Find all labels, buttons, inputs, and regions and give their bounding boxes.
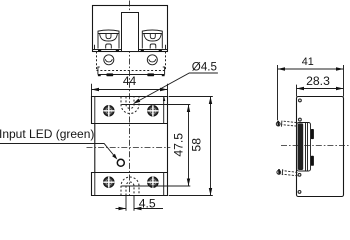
Input LED label and leader	[0, 127, 117, 160]
top view center barrier block	[122, 13, 139, 52]
front view body outline	[92, 97, 168, 196]
front view band inner lines	[95, 97, 164, 196]
side view centerline	[281, 145, 350, 147]
dimension 28.3	[297, 74, 344, 96]
dimension 44	[92, 74, 168, 96]
front screw bottom-right	[147, 177, 158, 188]
LED indicator circle	[117, 159, 124, 166]
top view front edge slot marks	[98, 50, 162, 52]
top view right corner foot	[163, 67, 165, 75]
top view right terminal clamp	[142, 30, 162, 49]
top view left corner foot	[98, 67, 100, 75]
top view front edge line	[93, 49, 168, 51]
dimension 41	[278, 56, 344, 120]
top view foot pads	[98, 73, 165, 76]
front screw bottom-left	[103, 177, 114, 188]
svg-text:58: 58	[190, 138, 204, 152]
dimension 47.5	[122, 105, 191, 187]
svg-text:4.5: 4.5	[139, 196, 156, 210]
top view outer body	[93, 6, 168, 52]
side view body outline	[297, 97, 344, 197]
bottom mounting slot hidden outline	[121, 177, 139, 196]
top view screw access hole right	[147, 55, 157, 65]
svg-text:Input LED (green): Input LED (green)	[0, 127, 94, 141]
top view screw access hole left	[104, 55, 114, 65]
callout diameter 4.5 leader	[133, 61, 218, 104]
front view horizontal centerline	[87, 147, 171, 149]
dimension 58	[169, 97, 213, 196]
svg-text:47.5: 47.5	[172, 133, 186, 157]
svg-text:Ø4.5: Ø4.5	[192, 61, 217, 74]
small tick mark on top edge	[163, 97, 165, 101]
svg-text:41: 41	[302, 56, 314, 68]
top view inner corner ticks	[95, 45, 166, 50]
side view top terminal screw	[276, 121, 296, 127]
vertical centerline (top and front views)	[129, 1, 131, 197]
side view bottom terminal screw	[277, 169, 298, 176]
front screw top-left	[103, 105, 114, 116]
top view hidden base outline	[97, 52, 166, 72]
dimension 4.5	[116, 196, 164, 211]
front view band edges	[92, 123, 168, 125]
top view left terminal clamp	[98, 30, 119, 49]
side view terminal block	[297, 123, 311, 172]
svg-text:44: 44	[123, 74, 137, 88]
side view corner pins	[298, 99, 301, 193]
top mounting slot hidden outline	[121, 97, 139, 114]
front screw top-right	[147, 105, 158, 116]
svg-text:28.3: 28.3	[306, 74, 330, 88]
top view bottom lip line	[98, 74, 165, 76]
side view terminal tabs	[311, 129, 314, 139]
